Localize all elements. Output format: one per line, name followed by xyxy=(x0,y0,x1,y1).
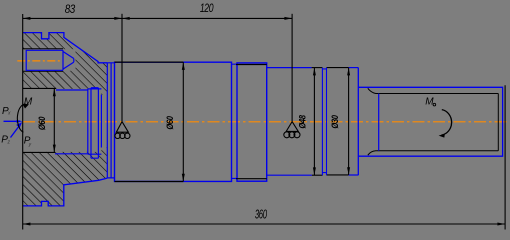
M right subscript circle xyxy=(433,103,436,106)
pin slot cutout xyxy=(22,49,75,71)
svg-text:120: 120 xyxy=(200,3,214,16)
section B black inset bottom xyxy=(236,178,267,180)
big section black bottom segment xyxy=(115,181,184,183)
jaw gap top edge black xyxy=(23,87,56,89)
dimension 360 xyxy=(23,223,505,225)
support 2 xyxy=(284,122,300,138)
svg-text:Ø60: Ø60 xyxy=(164,116,175,130)
thread minor lines xyxy=(368,88,499,155)
svg-text:Ø60: Ø60 xyxy=(36,116,47,130)
diameter dim D1 xyxy=(53,89,55,153)
svg-text:Ø48: Ø48 xyxy=(297,115,308,129)
groove xyxy=(322,68,326,176)
diameter dim D4 xyxy=(348,68,350,175)
left moment arc xyxy=(17,104,26,132)
force arrow axial (blue) xyxy=(4,120,21,122)
dimension 120 xyxy=(122,17,292,19)
chuck body hatching xyxy=(20,30,115,210)
chuck face rings xyxy=(88,88,102,159)
pin slot top line xyxy=(23,48,63,50)
extension line right xyxy=(504,85,506,229)
svg-text:Ø30: Ø30 xyxy=(329,115,340,129)
jaw gap bottom edge blue xyxy=(55,153,88,155)
chuck rim ring xyxy=(107,63,114,178)
end section outline xyxy=(358,87,502,156)
svg-text:83: 83 xyxy=(65,3,75,16)
section B black inset top xyxy=(236,64,267,66)
diameter dim D3 xyxy=(313,68,315,175)
chuck outer outline bottom xyxy=(23,178,108,206)
shoulder section bottom edge xyxy=(267,174,312,176)
jaw gap bottom edge black xyxy=(23,151,55,153)
pin slot bottom line xyxy=(23,70,63,72)
right moment arc xyxy=(441,110,451,136)
neck groove edges xyxy=(232,64,238,178)
force arrow diagonal (blue) xyxy=(11,126,20,138)
extension line left xyxy=(22,14,24,230)
svg-text:M: M xyxy=(24,97,33,108)
shoulder section top edge xyxy=(267,67,312,69)
main centerline xyxy=(23,121,508,123)
pin centerline xyxy=(17,60,60,62)
svg-text:x: x xyxy=(7,110,11,116)
svg-text:z: z xyxy=(7,139,11,145)
support 1 xyxy=(115,122,130,139)
workpiece gap cutout xyxy=(22,89,101,152)
dimension 83 xyxy=(23,17,122,19)
diameter dim D2 xyxy=(182,62,184,181)
chuck outer outline top xyxy=(23,33,108,63)
chuck face hole cutout xyxy=(101,95,108,148)
svg-text:y: y xyxy=(28,142,32,148)
thread runout line xyxy=(378,94,380,151)
pin body xyxy=(26,50,74,70)
svg-text:360: 360 xyxy=(255,209,267,222)
shaft big section outline xyxy=(115,62,232,181)
extension/support line 2 xyxy=(291,14,293,122)
section B outline xyxy=(237,63,267,181)
jaw gap top edge blue xyxy=(56,89,88,91)
extension/support line 1 xyxy=(121,14,123,122)
big section black top segment xyxy=(115,61,184,63)
svg-text:M: M xyxy=(425,97,434,108)
shoulder right edge xyxy=(357,68,359,176)
